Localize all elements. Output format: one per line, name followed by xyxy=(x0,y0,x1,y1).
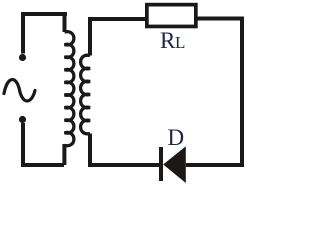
svg-text:R: R xyxy=(160,28,176,53)
svg-text:L: L xyxy=(175,33,185,52)
svg-text:D: D xyxy=(168,125,185,150)
